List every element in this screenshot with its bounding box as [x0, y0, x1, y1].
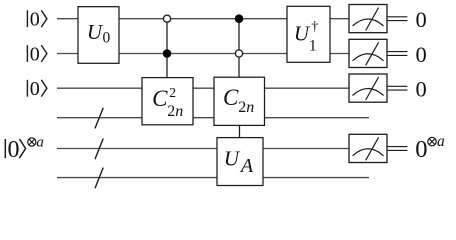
svg-text:0: 0 — [416, 7, 427, 32]
svg-text:1: 1 — [309, 38, 317, 55]
svg-text:A: A — [239, 155, 254, 177]
svg-text:0: 0 — [30, 9, 40, 31]
svg-text:†: † — [311, 20, 318, 35]
svg-text:0: 0 — [30, 78, 40, 100]
svg-text:0: 0 — [103, 30, 111, 47]
svg-text:0: 0 — [415, 136, 427, 163]
svg-text:C: C — [152, 86, 168, 111]
svg-text:U: U — [224, 146, 241, 170]
svg-text:0: 0 — [30, 43, 40, 65]
svg-text:U: U — [87, 20, 104, 44]
svg-text:0: 0 — [7, 137, 19, 163]
svg-text:a: a — [36, 134, 44, 150]
svg-text:0: 0 — [416, 42, 427, 67]
svg-text:0: 0 — [416, 77, 427, 102]
svg-text:2n: 2n — [167, 103, 183, 120]
svg-text:2: 2 — [169, 86, 176, 101]
svg-text:2n: 2n — [238, 99, 254, 116]
svg-text:a: a — [437, 133, 445, 150]
svg-text:C: C — [223, 85, 239, 110]
